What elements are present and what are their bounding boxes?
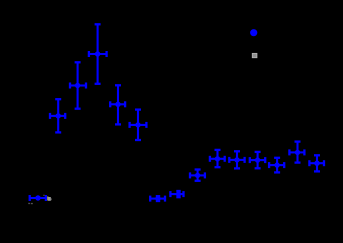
faint gray speck below-left 2 — [31, 203, 33, 204]
data point P13 (blue circle marker with error bars) — [269, 158, 284, 173]
olive error-bar cap near first point — [47, 196, 49, 200]
data point P6 (blue circle marker with error bars) — [130, 110, 147, 140]
legend marker: gray square — [252, 53, 257, 57]
data point P14 (blue circle marker with error bars) — [289, 142, 304, 163]
faint gray speck below-left 1 — [28, 203, 30, 204]
faint gray speck above first point — [43, 195, 44, 196]
data point P9 (blue circle marker with error bars) — [190, 170, 205, 181]
data point P5 (blue circle marker with error bars) — [110, 85, 125, 124]
data point P7 (blue circle marker with error bars) — [150, 196, 165, 202]
gray square marker (second series) near first point — [48, 197, 51, 201]
data point P3 (blue circle marker with error bars) — [70, 62, 86, 108]
data point P1 (blue circle marker with error bars) — [30, 195, 46, 201]
data point P2 (blue circle marker with error bars) — [50, 99, 65, 132]
data point P12 (blue circle marker with error bars) — [250, 152, 265, 168]
data point P10 (blue circle marker with error bars) — [210, 150, 225, 167]
gray stub right of gray square — [51, 198, 52, 200]
data point P4 (blue circle marker with error bars) — [89, 24, 107, 84]
data point P15 (blue circle marker with error bars) — [309, 155, 324, 171]
data point P11 (blue circle marker with error bars) — [229, 151, 244, 168]
legend marker: blue circle — [250, 29, 257, 36]
data point P8 (blue circle marker with error bars) — [170, 191, 183, 197]
